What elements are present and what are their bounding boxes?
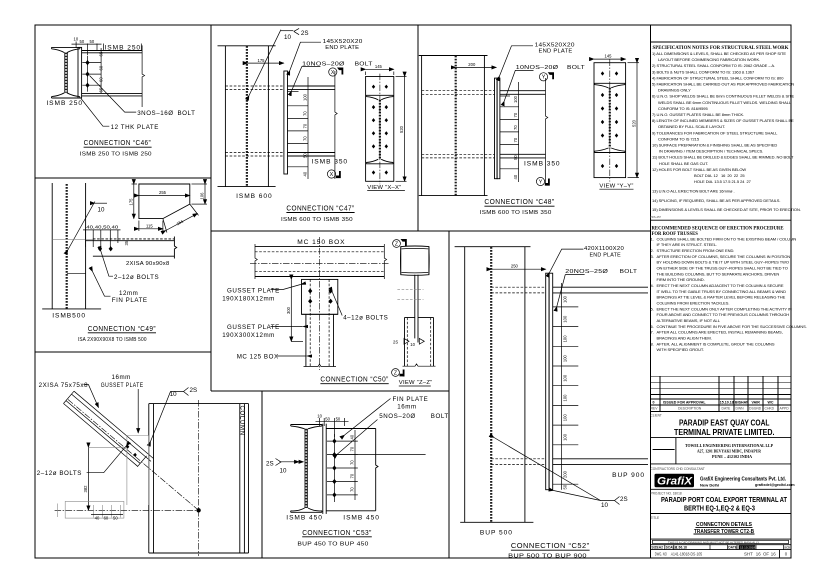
svg-text:10: 10 xyxy=(410,342,415,347)
svg-text:AFTER, ALL ALIGNMENT IS COMPLE: AFTER, ALL ALIGNMENT IS COMPLETE, GROUT … xyxy=(657,341,775,346)
svg-text:STRUCTURE ERECTION FROM ONE EN: STRUCTURE ERECTION FROM ONE END. xyxy=(657,248,735,253)
svg-text:9) TOLERANCES FOR FABRICATION: 9) TOLERANCES FOR FABRICATION OF STEEL S… xyxy=(652,130,778,135)
svg-text:CONNECTION “C47”: CONNECTION “C47” xyxy=(286,206,354,213)
svg-text:70: 70 xyxy=(350,487,355,492)
svg-text:250: 250 xyxy=(511,264,519,269)
svg-text:REV: REV xyxy=(651,407,659,411)
end plate 12 THK xyxy=(78,47,82,98)
svg-text:LAYOUT BEFORE COMMENCING FABRI: LAYOUT BEFORE COMMENCING FABRICATION WOR… xyxy=(658,57,760,62)
svg-text:BRACINGS AND ALIGN THEM.: BRACINGS AND ALIGN THEM. xyxy=(657,336,712,341)
svg-text:5NOS–20Ø: 5NOS–20Ø xyxy=(379,413,415,420)
beam ISMB 250 plan view xyxy=(82,51,143,96)
svg-text:DWG. NO: DWG. NO xyxy=(655,552,667,557)
panel divider vertical C46/C49 | C47 xyxy=(210,25,212,391)
svg-text:12 THK PLATE: 12 THK PLATE xyxy=(111,124,159,131)
panel divider horizontal C49 bottom xyxy=(35,351,211,353)
svg-text:10: 10 xyxy=(74,37,79,42)
svg-text:ISMB 250 TO ISMB 250: ISMB 250 TO ISMB 250 xyxy=(80,151,152,157)
svg-text:New Delhi: New Delhi xyxy=(700,483,719,488)
svg-text:ISSUED FOR APPROVAL: ISSUED FOR APPROVAL xyxy=(663,400,706,404)
end plate 420X1100X20 xyxy=(546,273,549,490)
beam BUP 900 flanges xyxy=(553,287,648,464)
top dimension chain 10,50,50 xyxy=(72,42,102,56)
svg-text:12mm: 12mm xyxy=(119,290,138,297)
dim 520 Y-Y xyxy=(636,63,638,178)
svg-text:2–12ø BOLTS: 2–12ø BOLTS xyxy=(37,470,82,477)
svg-text:BUP 450 TO BUP 450: BUP 450 TO BUP 450 xyxy=(297,542,369,548)
svg-text:100: 100 xyxy=(563,315,568,323)
cad strip xyxy=(653,540,789,543)
VIEW Z-Z: MC150 end view xyxy=(401,246,429,275)
svg-text:70: 70 xyxy=(513,137,518,142)
svg-text:1) ALL DIMENSIONS & LEVELS, SH: 1) ALL DIMENSIONS & LEVELS, SHALL BE CHE… xyxy=(652,51,786,56)
svg-text:FIRM INTO THE GROUND.: FIRM INTO THE GROUND. xyxy=(657,277,705,282)
svg-text:1.: 1. xyxy=(651,236,654,241)
svg-text:190X180X12mm: 190X180X12mm xyxy=(222,296,275,303)
dwg no row xyxy=(779,550,781,558)
section line Y-Y xyxy=(546,78,548,183)
GrafiX logo xyxy=(655,474,695,487)
svg-text:100: 100 xyxy=(303,93,308,101)
brace centerline xyxy=(68,400,199,511)
svg-text:7.: 7. xyxy=(651,330,654,335)
svg-text:TERMINAL PRIVATE LIMITED.: TERMINAL PRIVATE LIMITED. xyxy=(674,428,775,437)
svg-text:10: 10 xyxy=(317,414,322,419)
beam end break line xyxy=(142,45,145,107)
svg-text:END PLATE: END PLATE xyxy=(325,45,359,51)
svg-text:IT WELL TO THE GABLE TRUSS BY: IT WELL TO THE GABLE TRUSS BY CONNECTING… xyxy=(657,289,787,294)
working point xyxy=(196,508,200,512)
svg-text:OF: OF xyxy=(763,552,769,557)
bolt rows C52 xyxy=(553,307,579,484)
leader 145X520X20 END PLATE C48 xyxy=(500,46,534,76)
svg-text:10: 10 xyxy=(601,502,608,509)
svg-text:520: 520 xyxy=(399,125,404,133)
svg-text:50: 50 xyxy=(325,416,330,421)
weld symbol 10 xyxy=(68,202,95,251)
bolt dim line C52 xyxy=(561,283,563,490)
spec box top line xyxy=(651,41,792,43)
gusset plate lower / MC125 xyxy=(302,314,338,366)
leader 10NOS-20 BOLT C48 xyxy=(504,70,533,101)
fin plate 16mm xyxy=(322,424,324,514)
svg-text:3) BOLTS & NUTS SHALL CONFORM: 3) BOLTS & NUTS SHALL CONFORM TO IS: 136… xyxy=(652,69,755,74)
svg-text:ISMB 600 TO ISMB 350: ISMB 600 TO ISMB 350 xyxy=(281,217,353,223)
svg-text:A27, 1201 DEVYAKI MIDC, INDAPU: A27, 1201 DEVYAKI MIDC, INDAPUR xyxy=(697,449,761,453)
svg-text:X: X xyxy=(331,70,335,76)
svg-text:BOLT: BOLT xyxy=(431,413,449,420)
svg-text:10NOS–20Ø: 10NOS–20Ø xyxy=(302,61,345,67)
column xyxy=(149,404,249,553)
vertical dimension chain 65,60,60 xyxy=(100,48,102,93)
svg-text:SHT: SHT xyxy=(744,552,753,557)
svg-text:2) STRUCTURAL STEEL SHALL CONF: 2) STRUCTURAL STEEL SHALL CONFORM TO IS:… xyxy=(652,63,775,68)
svg-text:50: 50 xyxy=(113,516,118,521)
svg-text:APPD: APPD xyxy=(780,407,790,411)
svg-text:COLUMNS SHALL BE BOLTED FIRM O: COLUMNS SHALL BE BOLTED FIRM ON TO THE E… xyxy=(657,236,797,241)
panel divider horizontal C47/C48 bottom xyxy=(211,230,651,232)
svg-text:Z: Z xyxy=(395,241,398,247)
I-section flanges in view Y-Y xyxy=(595,83,626,88)
dim 156 diagonal xyxy=(166,213,198,230)
gusset plate outline xyxy=(139,184,190,219)
end plate 145X520X20 C48 xyxy=(495,78,498,179)
svg-text:HOLE SHALL BE GAS CUT.: HOLE SHALL BE GAS CUT. xyxy=(659,161,708,166)
weld symbol 10/2S bottom xyxy=(554,491,615,501)
svg-text:10: 10 xyxy=(284,34,291,41)
svg-text:ON EITHER SIDE OF THE TRUSS.GU: ON EITHER SIDE OF THE TRUSS.GUY–ROPES SH… xyxy=(657,266,788,271)
bolts view Y-Y xyxy=(601,71,604,75)
svg-text:BUP 900: BUP 900 xyxy=(612,472,645,479)
svg-text:CONNECTION “C50”: CONNECTION “C50” xyxy=(320,377,388,384)
towell block xyxy=(675,438,677,464)
svg-text:BUP 500: BUP 500 xyxy=(480,530,513,537)
svg-text:ISMB 350: ISMB 350 xyxy=(524,161,561,168)
svg-text:THE BUILDING COLUMNS, BUT TO S: THE BUILDING COLUMNS, BUT TO SEPARATE AN… xyxy=(657,271,780,276)
svg-text:11) BOLT HOLES SHALL BE DRILLE: 11) BOLT HOLES SHALL BE DRILLED & EDGES … xyxy=(652,155,794,160)
column web hatch C49 xyxy=(66,184,68,309)
hidden lines MC125 xyxy=(309,279,311,366)
svg-text:10: 10 xyxy=(280,468,287,475)
column centerline xyxy=(198,400,200,556)
svg-text:CONFORM TO IS 7215: CONFORM TO IS 7215 xyxy=(658,136,700,141)
bolt dim line C53 xyxy=(354,430,356,500)
svg-text:15) DIMENSIONS & LEVELS SHALL: 15) DIMENSIONS & LEVELS SHALL BE CHECKED… xyxy=(652,207,801,212)
section line X-X xyxy=(335,71,337,179)
svg-text:4) FABRICATION OF STRUCTURAL S: 4) FABRICATION OF STRUCTURAL STEEL SHALL… xyxy=(652,75,784,80)
right column left edge xyxy=(650,25,652,558)
dim 250 xyxy=(491,268,546,270)
bolt rows C48 xyxy=(500,96,519,169)
svg-text:100: 100 xyxy=(563,414,568,422)
svg-text:40: 40 xyxy=(350,434,355,439)
section marker Y bottom xyxy=(536,177,549,185)
bolt B3 xyxy=(85,83,89,88)
svg-text:BISHAN: BISHAN xyxy=(735,400,749,404)
svg-text:ISA 2X90X90X8 TO ISMB 500: ISA 2X90X90X8 TO ISMB 500 xyxy=(78,337,147,343)
svg-text:100: 100 xyxy=(563,394,568,402)
weld symbol 2S/10 view Z-Z xyxy=(404,338,409,344)
svg-text:BY HOLDING DOWN BOLTS & TIE IT: BY HOLDING DOWN BOLTS & TIE IT UP WITH S… xyxy=(657,260,789,265)
bolts C53 xyxy=(332,439,336,444)
dim 106 xyxy=(204,184,206,204)
panel divider vertical brace|C53 xyxy=(261,391,263,558)
svg-text:PUNE – 412102 INDIA: PUNE – 412102 INDIA xyxy=(712,455,752,459)
beam ISMB 350 side view xyxy=(288,86,335,156)
svg-text:40: 40 xyxy=(513,174,518,179)
svg-text:145: 145 xyxy=(605,53,613,58)
svg-text:70: 70 xyxy=(513,125,518,130)
leader 12mm FIN PLATE xyxy=(93,272,111,297)
svg-text:ISMB500: ISMB500 xyxy=(52,313,86,320)
bolt line xyxy=(87,56,89,92)
svg-text:ISMB 450: ISMB 450 xyxy=(343,514,380,521)
bolt B1 xyxy=(85,60,89,65)
svg-text:CONNECTION “C46”: CONNECTION “C46” xyxy=(84,140,152,147)
svg-text:HOLE DIA. 13.5 17.5 21.5 24 2: HOLE DIA. 13.5 17.5 21.5 24 27 xyxy=(694,179,752,184)
svg-text:CONTRACTORS CHD CONSULTANT: CONTRACTORS CHD CONSULTANT xyxy=(651,467,705,471)
dim 255 xyxy=(139,195,190,197)
dim 200 xyxy=(456,66,497,68)
svg-text:WITH SPECIFIED GROUT.: WITH SPECIFIED GROUT. xyxy=(657,347,704,352)
svg-text:3NOS–16Ø: 3NOS–16Ø xyxy=(137,110,173,117)
dim 382 xyxy=(87,447,89,510)
svg-text:GUSSET PLATE: GUSSET PLATE xyxy=(101,382,144,389)
svg-text:200: 200 xyxy=(468,62,476,67)
svg-text:100: 100 xyxy=(563,335,568,343)
svg-text:50: 50 xyxy=(80,39,85,44)
svg-text:grafixdel@gecltd.com: grafixdel@gecltd.com xyxy=(755,483,795,487)
svg-text:DRAWINGS ONLY: DRAWINGS ONLY xyxy=(658,88,691,93)
svg-text:520: 520 xyxy=(632,119,637,127)
dim 300 xyxy=(290,279,292,341)
svg-text:175: 175 xyxy=(258,58,266,63)
svg-text:X: X xyxy=(330,172,334,178)
panel divider vertical C50|C52 xyxy=(448,231,450,558)
svg-text:BOLT: BOLT xyxy=(178,110,196,117)
svg-text:15.10.2018: 15.10.2018 xyxy=(740,545,755,549)
svg-text:16mm: 16mm xyxy=(112,374,131,381)
revision table xyxy=(651,376,792,411)
svg-text:5.: 5. xyxy=(651,306,654,311)
svg-text:TOWELL ENGINEERING INTERNATION: TOWELL ENGINEERING INTERNATIONAL LLP xyxy=(685,443,773,448)
web hatch ISMB 250 xyxy=(65,53,67,93)
svg-text:ISMB 250: ISMB 250 xyxy=(46,100,83,107)
svg-text:ISMB 600 TO ISMB 350: ISMB 600 TO ISMB 350 xyxy=(480,210,552,216)
svg-text:2.: 2. xyxy=(651,248,654,253)
svg-text:100: 100 xyxy=(563,433,568,441)
svg-text:CHKD: CHKD xyxy=(765,407,775,411)
svg-text:DESCRIPTION: DESCRIPTION xyxy=(678,407,702,411)
svg-text:Y: Y xyxy=(542,75,546,81)
svg-text:IF THEY ARE IN STRUCT. STEEL.: IF THEY ARE IN STRUCT. STEEL. xyxy=(657,242,718,247)
svg-text:FIN PLATE: FIN PLATE xyxy=(112,297,148,304)
angle member 2XISA 90x90x8 xyxy=(86,237,177,259)
bolt hidden lines Z-Z xyxy=(397,289,423,291)
svg-text:BOLT: BOLT xyxy=(620,269,638,275)
svg-text:BOLT DIA. 12 16 20 22 25: BOLT DIA. 12 16 20 22 25 xyxy=(694,173,745,178)
svg-text:COLUMN: COLUMN xyxy=(239,406,246,436)
beam ISMB 450 end view xyxy=(291,425,322,513)
dim 175 xyxy=(133,184,135,219)
svg-text:CONFORM TO IS: 816/9595: CONFORM TO IS: 816/9595 xyxy=(658,106,708,111)
svg-text:VIEW “Y–Y”: VIEW “Y–Y” xyxy=(599,183,633,189)
svg-text:PARADIP EAST QUAY COAL: PARADIP EAST QUAY COAL xyxy=(679,419,770,428)
svg-text:16mm: 16mm xyxy=(397,403,416,410)
panel divider horizontal C46 bottom xyxy=(35,177,211,179)
section marker Y top xyxy=(539,72,554,81)
svg-text:2S: 2S xyxy=(620,496,628,503)
fin plate lines xyxy=(67,272,86,274)
member BUP 450 web view xyxy=(326,429,378,511)
svg-text:DATE: DATE xyxy=(728,546,738,550)
svg-text:65: 65 xyxy=(99,51,104,56)
svg-text:12) HOLES FOR BOLT SHALL BE AS: 12) HOLES FOR BOLT SHALL BE AS GIVEN BEL… xyxy=(652,167,746,172)
svg-text:40,40,50,40: 40,40,50,40 xyxy=(86,225,119,230)
svg-text:13) U.N.O ALL ERECTION BOLT AR: 13) U.N.O ALL ERECTION BOLT ARE 16mmø . xyxy=(652,188,735,193)
svg-text:6.: 6. xyxy=(651,324,654,329)
svg-text:AFTER ALL COLUMNS ARE ERECTED,: AFTER ALL COLUMNS ARE ERECTED, INSTALL R… xyxy=(657,330,783,335)
svg-text:DATE: DATE xyxy=(722,407,732,411)
svg-text:ISMB 450: ISMB 450 xyxy=(286,514,323,521)
I-section flanges in view X-X xyxy=(366,95,393,100)
svg-text:END PLATE: END PLATE xyxy=(539,49,573,55)
svg-text:145: 145 xyxy=(375,64,383,69)
svg-text:145X520X20: 145X520X20 xyxy=(323,39,364,45)
svg-text:175: 175 xyxy=(128,198,133,206)
leader 12 THK PLATE xyxy=(81,99,109,127)
column web hatch C52 xyxy=(490,247,492,522)
svg-text:16: 16 xyxy=(771,552,776,557)
svg-text:A141-18018-DS-105: A141-18018-DS-105 xyxy=(671,552,703,557)
svg-text:100: 100 xyxy=(563,374,568,382)
svg-text:Y: Y xyxy=(539,179,543,185)
svg-text:20NOS–25Ø: 20NOS–25Ø xyxy=(565,269,608,275)
web hatch view Y-Y xyxy=(609,88,611,148)
sequence body xyxy=(651,236,807,352)
svg-text:145X520X20: 145X520X20 xyxy=(535,42,576,48)
svg-text:50: 50 xyxy=(90,39,95,44)
top dim chain 10,50,50 xyxy=(316,418,349,437)
svg-text:AFTER ERECTION OF COLUMNS, SEC: AFTER ERECTION OF COLUMNS, SECURE THE CO… xyxy=(657,254,791,259)
column web hatch xyxy=(246,46,248,186)
svg-text:10) SURFACE PREPARATION & FINI: 10) SURFACE PREPARATION & FINISHING SHAL… xyxy=(652,143,777,148)
svg-text:65: 65 xyxy=(99,87,104,92)
svg-text:CONNECTION “C53”: CONNECTION “C53” xyxy=(302,530,372,537)
svg-text:10NOS–20Ø: 10NOS–20Ø xyxy=(516,65,559,71)
svg-text:70: 70 xyxy=(303,136,308,141)
svg-text:70: 70 xyxy=(303,123,308,128)
svg-text:GUSSET PLATE: GUSSET PLATE xyxy=(227,324,280,331)
svg-text:106: 106 xyxy=(200,192,205,200)
dim 145 Y-Y xyxy=(594,58,626,60)
svg-text:70: 70 xyxy=(350,473,355,478)
brace diagonal member xyxy=(64,391,154,467)
svg-text:SCD: SCD xyxy=(784,546,790,550)
bolts C50 xyxy=(308,288,312,293)
svg-text:BUP 500 TO BUP 900: BUP 500 TO BUP 900 xyxy=(508,553,587,559)
leader 2-12 BOLTS brace xyxy=(87,446,127,473)
column ISMB 600 side view xyxy=(218,46,276,187)
svg-text:3.: 3. xyxy=(651,254,654,259)
svg-text:115: 115 xyxy=(146,223,153,228)
centerline Y-Y xyxy=(609,60,611,182)
gusset plate at junction xyxy=(127,436,149,506)
svg-text:WELDS SHALL BE 6mm CONTINUOUS: WELDS SHALL BE 6mm CONTINUOUS FILLET WEL… xyxy=(658,100,792,105)
svg-text:1:66.18: 1:66.18 xyxy=(676,546,687,550)
svg-text:0: 0 xyxy=(653,400,655,404)
MC125 end view Z-Z xyxy=(403,318,436,367)
web hatch view X-X xyxy=(379,100,381,160)
svg-text:100: 100 xyxy=(513,95,518,103)
svg-text:CONTINUE THE PROCEDURE IN FIVE: CONTINUE THE PROCEDURE IN FIVE ABOVE FOR… xyxy=(657,324,807,329)
svg-text:DSGND: DSGND xyxy=(749,407,762,411)
weld symbol 10/2S top xyxy=(249,30,281,96)
svg-text:2S: 2S xyxy=(190,387,198,394)
hidden flange lines across column C48 xyxy=(422,91,495,158)
svg-text:A2: A2 xyxy=(659,546,663,550)
svg-text:CLIENT: CLIENT xyxy=(651,414,662,418)
svg-text:16: 16 xyxy=(756,552,761,557)
leader 2-12 BOLTS xyxy=(101,251,113,276)
centerline MC125 vertical xyxy=(319,237,321,370)
svg-text:ISMB 350: ISMB 350 xyxy=(312,158,349,165)
svg-text:60: 60 xyxy=(99,77,104,82)
svg-text:2S: 2S xyxy=(393,339,398,344)
svg-text:TITLE: TITLE xyxy=(651,516,660,520)
leader to gusset xyxy=(137,389,139,433)
svg-text:COLUMNS FROM ERECTION TACKLES.: COLUMNS FROM ERECTION TACKLES. xyxy=(657,301,730,306)
dim chain 40,60,50 xyxy=(94,505,121,518)
svg-text:50: 50 xyxy=(563,484,568,489)
leader 3NOS-16 BOLT xyxy=(90,76,137,113)
section marker Z top xyxy=(393,239,407,247)
spec notes body xyxy=(650,51,801,219)
svg-text:IN DRAWING / ITEM DESCRIPTION: IN DRAWING / ITEM DESCRIPTION / TECHNICA… xyxy=(659,149,763,154)
beam ISMB 350 side view C48 xyxy=(500,91,546,158)
dim 175 xyxy=(248,62,284,64)
svg-text:FIN PLATE: FIN PLATE xyxy=(393,396,429,403)
svg-text:ERECT THE NEXT COLUMN ONLY AFT: ERECT THE NEXT COLUMN ONLY AFTER COMPLET… xyxy=(657,306,792,311)
svg-text:40: 40 xyxy=(303,171,308,176)
weld symbol 10/2S brace xyxy=(151,392,184,442)
end plate 145X520X20 xyxy=(284,71,288,174)
svg-text:MC 125 BOX: MC 125 BOX xyxy=(237,354,279,361)
column ISMB500 side view xyxy=(42,183,101,309)
svg-text:4–12ø BOLTS: 4–12ø BOLTS xyxy=(343,314,388,321)
bolt dim line C48 xyxy=(518,82,520,182)
column web hatch C48 xyxy=(455,56,457,196)
svg-text:50: 50 xyxy=(513,155,518,160)
baseline box xyxy=(65,501,124,518)
svg-text:2XISA 75x75x8: 2XISA 75x75x8 xyxy=(39,382,88,389)
svg-text:70: 70 xyxy=(513,112,518,117)
svg-text:190X300X12mm: 190X300X12mm xyxy=(222,332,275,339)
svg-text:50: 50 xyxy=(303,153,308,158)
divider above sequence xyxy=(651,219,792,221)
size/scale/date row xyxy=(665,545,784,550)
hidden flange lines across column xyxy=(225,86,284,156)
dim 520 xyxy=(404,77,406,182)
leader 10NOS-20 BOLT xyxy=(292,67,321,91)
svg-text:40: 40 xyxy=(95,516,100,521)
svg-text:420X1100X20: 420X1100X20 xyxy=(584,246,624,252)
svg-text:100: 100 xyxy=(563,295,568,303)
svg-text:100: 100 xyxy=(563,354,568,362)
web hatch C53 beam xyxy=(305,429,307,508)
svg-text:14) SPLICING, IF REQUIRED, SHA: 14) SPLICING, IF REQUIRED, SHALL BE AS P… xyxy=(652,198,780,203)
svg-text:60: 60 xyxy=(104,516,109,521)
svg-text:2–12ø BOLTS: 2–12ø BOLTS xyxy=(114,274,159,281)
svg-text:7) U.N.O. GUSSET PLATES SHALL: 7) U.N.O. GUSSET PLATES SHALL BE 8mm THI… xyxy=(652,112,744,117)
section marker X bottom xyxy=(327,170,340,178)
svg-text:70: 70 xyxy=(350,446,355,451)
svg-text:OBTAINED BY FULL SCALE LAYOUT.: OBTAINED BY FULL SCALE LAYOUT. xyxy=(658,124,725,129)
leader 4-12 BOLTS xyxy=(333,293,343,316)
bolt rows xyxy=(288,91,309,166)
svg-text:10: 10 xyxy=(98,206,105,213)
svg-text:382: 382 xyxy=(83,485,88,493)
svg-text:5) FABRICATION SHALL BE CARRIE: 5) FABRICATION SHALL BE CARRIED OUT AS P… xyxy=(652,82,794,87)
svg-text:DWN: DWN xyxy=(736,407,745,411)
column BUP 500 xyxy=(455,247,534,523)
bolt dim line xyxy=(307,77,309,179)
svg-text:300: 300 xyxy=(286,306,291,314)
centerline xyxy=(379,74,381,185)
leader to brace xyxy=(84,385,99,408)
bolts on brace xyxy=(126,445,129,449)
svg-text:70: 70 xyxy=(303,111,308,116)
